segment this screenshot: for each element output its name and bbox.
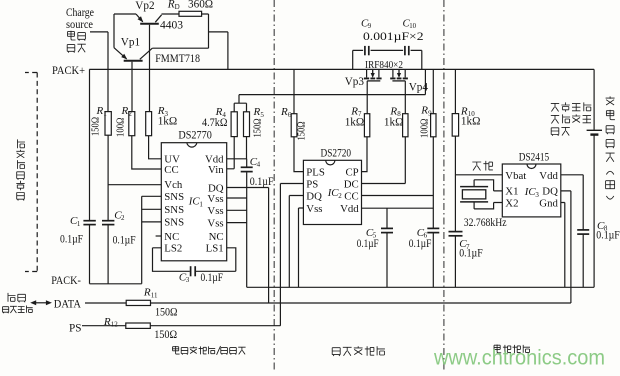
svg-text:CC: CC: [164, 164, 178, 176]
svg-text:Gnd: Gnd: [539, 197, 558, 209]
svg-text:3: 3: [186, 276, 190, 284]
transistor Vp2: [136, 14, 162, 112]
resistor R3: [146, 112, 152, 136]
wire LS2/LS1 loop: [153, 248, 236, 271]
capacitor C6: [427, 228, 439, 232]
value label R5: [252, 106, 265, 138]
value label RD 360: [167, 0, 213, 11]
wire PACK- rail: [90, 283, 142, 285]
IC U2 DS2720 body: [303, 160, 361, 224]
capacitor C3: [191, 266, 196, 276]
wire R10/C7 branch: [454, 69, 456, 287]
svg-text:9: 9: [428, 109, 432, 117]
value label R11: [143, 287, 178, 319]
resistor R7: [364, 114, 369, 137]
svg-text:0.1µF: 0.1µF: [596, 230, 620, 242]
value label R1: [90, 105, 108, 136]
svg-text:Vdd: Vdd: [539, 170, 558, 182]
resistor R4: [231, 112, 237, 137]
capacitor C7: [449, 232, 463, 236]
node label FMMT718: [155, 53, 200, 65]
node label Vp4: [409, 81, 429, 93]
svg-text:SNS: SNS: [164, 217, 184, 229]
wire Vch to R1/C2 node: [108, 184, 161, 186]
svg-text:12: 12: [111, 321, 119, 329]
IC U3 DS2415 body: [502, 164, 561, 217]
svg-text:Vss: Vss: [207, 205, 223, 217]
wire Vss U2 down: [299, 208, 304, 287]
node label 实时时钟: [494, 345, 530, 354]
svg-text:Vin: Vin: [208, 164, 224, 176]
wire SNS bus: [142, 196, 162, 283]
svg-text:Vp3: Vp3: [345, 76, 365, 88]
IC U1 DS2770 body: [161, 143, 226, 261]
node label 电池保护器: [332, 346, 385, 356]
svg-text:5: 5: [260, 111, 264, 119]
pin labels U1: [164, 154, 224, 255]
svg-text:Vss: Vss: [306, 203, 322, 215]
wire charge input to R1: [90, 32, 108, 112]
resistor R9: [431, 114, 436, 137]
svg-text:2: 2: [128, 110, 132, 118]
node label 4403: [160, 20, 183, 32]
resistor R6: [291, 114, 297, 137]
svg-text:CP: CP: [345, 166, 358, 178]
resistor R2: [129, 112, 135, 136]
svg-text:0.1µF: 0.1µF: [113, 234, 136, 246]
capacitor C1: [83, 221, 95, 225]
svg-text:32.768kHz: 32.768kHz: [464, 217, 507, 229]
node label DATA: [54, 298, 81, 310]
wire R3 to UV pin: [149, 136, 162, 159]
svg-text:D: D: [175, 3, 180, 11]
svg-text:CC: CC: [344, 190, 358, 202]
capacitor C2: [102, 221, 114, 225]
wire DQ U3 to DATA: [561, 191, 571, 303]
svg-text:150Ω: 150Ω: [155, 306, 178, 318]
svg-text:10: 10: [409, 23, 416, 30]
svg-text:0.1µF: 0.1µF: [201, 272, 224, 284]
svg-text:Vp1: Vp1: [121, 36, 140, 48]
wire R6 to PLS: [294, 137, 303, 172]
svg-text:SNS: SNS: [164, 204, 184, 216]
capacitor C8: [577, 230, 589, 234]
svg-text:R: R: [280, 106, 288, 118]
wire mid sense rail: [239, 69, 425, 94]
svg-text:6: 6: [288, 111, 292, 119]
svg-text:DATA: DATA: [54, 298, 81, 310]
value label 32.768kHz: [464, 217, 507, 229]
svg-text:LS2: LS2: [164, 243, 182, 255]
svg-text:Vp4: Vp4: [409, 81, 429, 93]
value label R8: [384, 105, 404, 128]
node label PACK-: [51, 275, 81, 287]
node section divider 2: [443, 0, 445, 371]
wire C1 branch: [89, 69, 91, 283]
node Charge source label: [66, 7, 94, 52]
value label R3: [157, 105, 178, 128]
value label R12: [103, 316, 177, 341]
svg-text:R: R: [103, 316, 111, 328]
node label 被充电电池(组): [606, 96, 615, 199]
svg-text:LS1: LS1: [206, 243, 224, 255]
svg-text:DS2770: DS2770: [178, 130, 212, 142]
wire RD to rail: [152, 14, 228, 69]
svg-text:2: 2: [121, 214, 125, 222]
svg-text:0.1µF: 0.1µF: [250, 176, 274, 188]
wire NC tick: [156, 235, 162, 237]
resistor RD: [179, 11, 202, 16]
svg-text:NC: NC: [164, 231, 179, 243]
svg-text:DQ: DQ: [542, 186, 558, 198]
node label 负载或主设备: [16, 139, 25, 200]
svg-text:1kΩ: 1kΩ: [158, 116, 178, 128]
value label C4: [250, 156, 274, 188]
wire Vp3 gate to R7: [366, 81, 368, 114]
wire snubber: [353, 50, 422, 69]
svg-text:1: 1: [199, 200, 203, 208]
wire negative bus: [247, 286, 594, 288]
node label 锂离子或锂聚合物电池: [551, 102, 592, 135]
resistor R5: [244, 112, 250, 137]
wire DC to R8: [362, 137, 406, 184]
value label R4: [202, 106, 228, 129]
svg-text:R: R: [96, 105, 104, 117]
wire R1 bottom / C2 branch: [107, 135, 109, 284]
value label C1: [60, 215, 83, 246]
svg-text:Charge: Charge: [66, 7, 94, 19]
svg-text:DQ: DQ: [306, 190, 322, 202]
svg-text:IRF840×2: IRF840×2: [365, 59, 403, 71]
svg-text:3: 3: [535, 191, 539, 199]
wire Vdd U2 to C5/C6: [362, 207, 434, 209]
node load bracket (dashed): [25, 73, 37, 272]
value label R7: [345, 105, 365, 128]
wire X1 to crystal: [474, 180, 502, 191]
svg-text:4.7kΩ: 4.7kΩ: [202, 117, 228, 129]
svg-text:100Ω: 100Ω: [115, 118, 127, 138]
wire PS to PS line: [280, 184, 303, 326]
svg-text:1kΩ: 1kΩ: [461, 116, 481, 128]
svg-text:1: 1: [77, 220, 81, 228]
node system uP arrow: [30, 300, 52, 305]
resistor R11: [126, 300, 150, 305]
svg-text:NC: NC: [209, 231, 224, 243]
resistor R10: [452, 114, 458, 137]
svg-text:Vbat: Vbat: [505, 170, 526, 182]
value label C8: [596, 220, 620, 242]
value label R10: [460, 105, 481, 127]
wire C5 branch: [386, 208, 388, 287]
value label C5: [357, 227, 379, 250]
wire R7 to CP: [362, 137, 368, 172]
node label Vp3: [345, 76, 365, 88]
svg-text:1: 1: [103, 110, 107, 118]
svg-text:0.1µF: 0.1µF: [357, 238, 379, 250]
svg-text:SNS: SNS: [164, 191, 184, 203]
node label Vp2: [135, 0, 154, 12]
svg-text:0.001µF×2: 0.001µF×2: [363, 31, 424, 43]
node watermark: [433, 347, 605, 370]
value label R6: [280, 106, 308, 140]
svg-text:0.1µF: 0.1µF: [60, 234, 83, 246]
capacitor C10: [405, 46, 409, 55]
value label C3: [179, 271, 223, 284]
pin labels U2: [306, 166, 359, 215]
capacitor C9: [365, 46, 369, 55]
node label IRF840: [365, 59, 403, 71]
transistor Vp4: [390, 69, 408, 81]
value label R9: [419, 105, 433, 138]
svg-text:150Ω: 150Ω: [252, 119, 264, 138]
node label DS2720: [321, 148, 352, 160]
svg-text:X2: X2: [505, 197, 518, 209]
node label PACK+: [52, 65, 85, 77]
battery pack: [587, 69, 602, 287]
wire R2 to CC pin: [132, 136, 162, 169]
node label DS2770: [178, 130, 212, 142]
wire CC to R9/C6: [362, 195, 434, 197]
resistor R1: [105, 112, 111, 136]
wire Vss stubs U1: [227, 198, 247, 223]
svg-text:R: R: [143, 287, 151, 299]
node label PS: [69, 323, 81, 335]
wire R4/R5 top to mid rail: [234, 95, 246, 112]
resistor R8: [403, 114, 408, 137]
svg-text:DS2720: DS2720: [321, 148, 352, 160]
svg-text:100Ω: 100Ω: [419, 119, 431, 139]
wire DQ U1 to DATA: [227, 188, 269, 304]
svg-text:FMMT718: FMMT718: [155, 53, 200, 65]
value label R2: [115, 105, 133, 137]
wire Vdd to R5/C4: [227, 137, 247, 288]
resistor R12: [126, 323, 151, 328]
svg-text:11: 11: [151, 291, 158, 299]
pin labels U3: [505, 170, 558, 209]
capacitor C5: [381, 228, 393, 232]
svg-text:Vss: Vss: [207, 193, 223, 205]
svg-text:150Ω: 150Ω: [90, 117, 102, 136]
wire R6 top: [293, 69, 295, 113]
svg-text:source: source: [66, 19, 93, 31]
wire DATA line: [85, 302, 571, 304]
svg-text:R: R: [253, 106, 261, 118]
svg-text:PACK+: PACK+: [52, 65, 85, 77]
node label 充电控制器/电量计: [173, 346, 246, 355]
svg-text:Vss: Vss: [207, 217, 223, 229]
svg-text:R: R: [420, 105, 428, 117]
svg-text:www.chtronics.com: www.chtronics.com: [433, 347, 605, 370]
node section divider 1: [273, 0, 275, 371]
svg-text:Vp2: Vp2: [135, 0, 154, 12]
node label DS2415: [519, 151, 550, 163]
svg-text:1kΩ: 1kΩ: [345, 116, 365, 128]
value label 0.001uF: [363, 31, 424, 43]
svg-text:0.1µF: 0.1µF: [459, 248, 483, 260]
svg-text:R: R: [121, 105, 129, 117]
value label C7: [459, 238, 483, 260]
svg-text:0.1µF: 0.1µF: [409, 238, 432, 250]
svg-text:9: 9: [368, 23, 372, 30]
wire Vin to R4: [227, 137, 235, 169]
node label 系统微处理器: [3, 293, 33, 313]
capacitor C4: [241, 167, 253, 171]
node label 晶体: [472, 161, 493, 171]
svg-text:X1: X1: [505, 186, 518, 198]
svg-text:PS: PS: [306, 178, 318, 190]
wire X2 to crystal: [474, 202, 502, 209]
svg-text:DC: DC: [344, 178, 359, 190]
value label C6: [409, 227, 432, 250]
svg-text:360Ω: 360Ω: [188, 0, 213, 10]
wire Vdd U3 to C8: [561, 175, 583, 287]
node label Vp1: [121, 36, 140, 48]
value label C9: [361, 17, 372, 30]
wire Vp2 collector to RD: [162, 13, 180, 15]
crystal X 32.768kHz: [460, 187, 488, 202]
wire PS line: [82, 325, 280, 327]
svg-text:PS: PS: [69, 323, 81, 335]
wire Gnd U3 down: [561, 203, 565, 288]
wire Vbat to R10/C7: [455, 174, 502, 176]
svg-text:150Ω: 150Ω: [154, 329, 177, 341]
transistor Vp3: [364, 69, 382, 81]
svg-text:2: 2: [338, 192, 342, 200]
value label C2: [113, 209, 136, 246]
svg-text:4403: 4403: [160, 20, 183, 32]
svg-text:1kΩ: 1kΩ: [384, 116, 404, 128]
wire PACK+ rail: [89, 68, 594, 70]
svg-text:DS2415: DS2415: [519, 151, 550, 163]
svg-text:150Ω: 150Ω: [296, 122, 308, 141]
wire emitters top line: [114, 14, 136, 48]
value label C10: [403, 17, 417, 30]
svg-text:Vdd: Vdd: [340, 203, 359, 215]
svg-text:PLS: PLS: [306, 166, 325, 178]
svg-text:4: 4: [257, 161, 261, 169]
transistor Vp1: [114, 48, 152, 112]
svg-text:PACK-: PACK-: [51, 275, 81, 287]
wire Vp4 gate to R8: [404, 81, 406, 114]
svg-text:R: R: [167, 0, 175, 10]
wire R9 branch: [432, 69, 434, 287]
wire DQ U2 down: [289, 196, 303, 288]
svg-text:Vch: Vch: [164, 179, 183, 191]
